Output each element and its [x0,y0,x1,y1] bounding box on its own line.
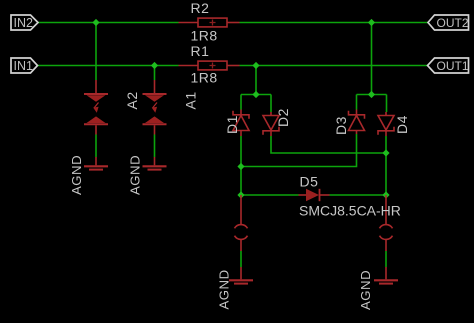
svg-text:OUT2: OUT2 [437,16,469,30]
svg-text:A2: A2 [124,91,140,109]
svg-text:OUT1: OUT1 [437,59,469,73]
svg-text:D1: D1 [224,115,240,134]
svg-text:1R8: 1R8 [191,28,218,44]
svg-text:AGND: AGND [358,270,373,310]
svg-text:SMCJ8.5CA-HR: SMCJ8.5CA-HR [299,203,401,219]
svg-text:R1: R1 [191,43,210,59]
svg-text:IN1: IN1 [14,59,34,73]
svg-text:D4: D4 [394,115,410,134]
svg-text:IN2: IN2 [14,16,34,30]
svg-text:D5: D5 [300,174,319,190]
svg-text:AGND: AGND [69,155,84,195]
svg-text:1R8: 1R8 [191,69,218,85]
svg-text:D3: D3 [333,116,349,135]
svg-text:D2: D2 [275,108,291,127]
svg-text:A1: A1 [183,91,199,109]
svg-text:AGND: AGND [217,269,232,309]
svg-text:R2: R2 [191,0,210,16]
svg-text:AGND: AGND [128,155,143,195]
